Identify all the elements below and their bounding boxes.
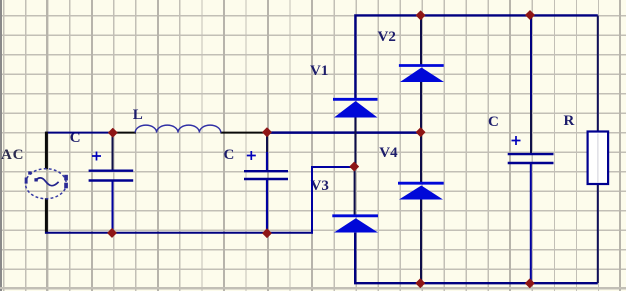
label V4 <box>379 146 397 161</box>
diode V2 <box>399 16 444 133</box>
label C1 <box>70 131 81 146</box>
wire AC source feed vertical <box>45 132 48 234</box>
junction dot bottom rail V4 <box>416 279 425 288</box>
wire jog vertical to left bridge midpoint <box>312 167 354 234</box>
wire bottom AC line <box>45 232 313 234</box>
junction dot top wire C2 <box>263 128 272 137</box>
label V2 <box>378 30 396 45</box>
wire top AC line left <box>45 132 113 134</box>
junction dot bottom wire C2 <box>263 229 272 238</box>
wire top rail <box>355 15 597 98</box>
diode V1 <box>333 99 378 167</box>
wire bottom rail <box>355 233 598 284</box>
junction dot top rail C3 <box>526 11 535 20</box>
capacitor C3 <box>508 16 554 284</box>
wire inductor right pin <box>221 132 268 134</box>
label AC <box>1 148 24 163</box>
junction dot top rail V2 <box>416 11 425 20</box>
capacitor C1 <box>89 133 134 233</box>
junction dot bottom rail C3 <box>525 279 534 288</box>
label C3 <box>488 115 499 130</box>
junction dot left bridge midpoint <box>350 162 359 171</box>
resistor R <box>588 16 609 284</box>
diode V3 <box>332 167 378 233</box>
label V1 <box>310 64 328 79</box>
diode V4 <box>398 133 444 284</box>
inductor L humps <box>135 125 221 132</box>
junction dot bottom wire C1 <box>108 229 117 238</box>
capacitor C2 <box>244 133 288 233</box>
label R <box>564 114 575 129</box>
AC source circle <box>25 169 68 199</box>
wire inductor left pin <box>113 132 136 134</box>
label C2 <box>224 148 235 163</box>
junction dot mid right branch <box>416 128 425 137</box>
label V3 <box>311 179 329 194</box>
wire mid line inductor to right branch <box>267 131 421 134</box>
junction dot top wire C1 <box>108 128 117 137</box>
label L <box>133 108 143 123</box>
